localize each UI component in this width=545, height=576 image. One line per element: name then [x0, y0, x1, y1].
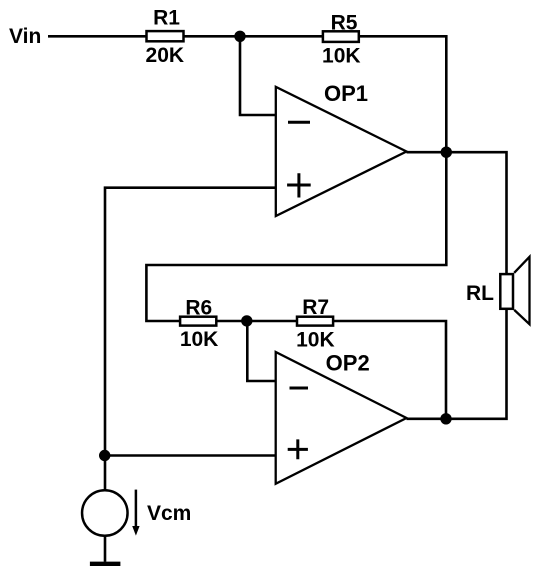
svg-text:R7: R7 — [302, 296, 329, 319]
svg-text:R6: R6 — [185, 297, 212, 320]
svg-text:OP1: OP1 — [324, 81, 368, 106]
svg-text:10K: 10K — [296, 329, 335, 352]
svg-text:Vcm: Vcm — [147, 502, 191, 525]
svg-text:Vin: Vin — [9, 25, 41, 48]
svg-text:20K: 20K — [146, 44, 185, 67]
svg-text:RL: RL — [466, 282, 494, 305]
svg-text:10K: 10K — [180, 328, 219, 351]
svg-text:R5: R5 — [331, 11, 358, 34]
svg-text:OP2: OP2 — [326, 350, 370, 375]
svg-text:10K: 10K — [322, 44, 361, 67]
svg-text:R1: R1 — [153, 6, 180, 29]
